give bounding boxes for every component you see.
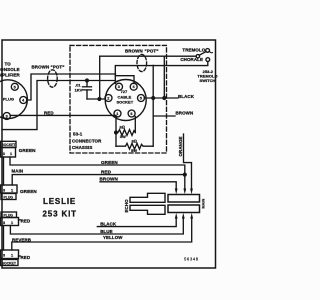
junction node (98, 98, 101, 101)
wire W1 to switch pivot (100, 55, 197, 57)
wire W2 pin3 to chorale contact (115, 62, 208, 84)
svg-text:4: 4 (22, 99, 25, 103)
connector J5 bottom socket (1, 250, 19, 259)
wire red stub J4 (19, 219, 21, 221)
svg-text:SOCKET: SOCKET (2, 261, 17, 265)
label TO CONSOLE AMPLIFIER (0, 61, 21, 77)
P1 pin 3 (3, 113, 10, 120)
P1 pin 4 (20, 97, 27, 104)
left socket S2 box (1, 141, 17, 147)
svg-text:RED: RED (21, 255, 31, 260)
727 cable socket U1 (105, 80, 146, 121)
svg-text:ECHO: ECHO (124, 199, 129, 213)
svg-text:1: 1 (11, 254, 13, 258)
svg-text:GREEN: GREEN (101, 160, 118, 165)
connector plug P1 (to console amplifier) (0, 80, 27, 119)
vertical rail A (152, 65, 154, 146)
echo connector blade lower (130, 205, 165, 214)
svg-text:“POT”: “POT” (51, 65, 65, 70)
svg-text:3: 3 (3, 152, 5, 156)
resistor R2 8ohm 5W (116, 143, 153, 149)
svg-text:RED: RED (44, 110, 54, 115)
svg-text:MAIN: MAIN (201, 199, 205, 209)
svg-text:3W: 3W (120, 134, 126, 139)
labels black blue yellow (100, 221, 123, 240)
svg-text:1: 1 (116, 112, 118, 116)
U1 pin 6 (128, 110, 135, 117)
svg-text:1: 1 (11, 188, 13, 192)
wire reverb pin3 down (3, 226, 5, 251)
wire BLACK bottom (97, 218, 176, 227)
svg-text:PLUG: PLUG (3, 97, 14, 102)
svg-text:1: 1 (10, 152, 12, 156)
svg-text:2: 2 (107, 97, 109, 101)
svg-text:SOCKET: SOCKET (117, 100, 134, 105)
title LESLIE 253 KIT (43, 197, 77, 218)
wire ORANGE (184, 134, 192, 189)
svg-text:BROWN: BROWN (125, 48, 143, 53)
tremolo switch S1 (196, 55, 199, 58)
grommet ellipse left pot (48, 70, 58, 87)
svg-text:5: 5 (140, 97, 142, 101)
echo connector blade upper (130, 193, 165, 202)
svg-text:3: 3 (118, 85, 120, 89)
U1 pin 1 (114, 110, 121, 117)
svg-text:AMPLIFIER: AMPLIFIER (0, 73, 21, 78)
svg-text:PLUG: PLUG (4, 195, 14, 199)
connector J3 (1, 185, 18, 193)
U1 pin 4 (130, 83, 137, 90)
capacitor C1 .01 1KV (86, 79, 89, 82)
svg-text:56348: 56348 (184, 257, 199, 262)
wire RED pin3 to resistor node (10, 114, 116, 116)
wire RED main (12, 175, 185, 185)
svg-text:LESLIE: LESLIE (43, 197, 76, 206)
labels green red brown (100, 160, 119, 181)
svg-text:1KV: 1KV (75, 88, 83, 93)
U1 pin 3 (116, 83, 123, 90)
wire cap bottom to pin2 (87, 98, 105, 100)
svg-text:MAIN: MAIN (12, 168, 24, 173)
svg-text:BLUE: BLUE (100, 229, 112, 234)
connector J2 (1, 148, 16, 157)
wire pin5 black rail (144, 97, 178, 99)
U1 pin 5 (138, 95, 145, 102)
plug box J3 (1, 194, 16, 200)
wire GREEN main (10, 157, 185, 189)
P1 pin 5 (11, 83, 18, 90)
svg-text:4: 4 (133, 85, 136, 89)
svg-text:SOCKET: SOCKET (2, 143, 17, 147)
reverb plug box J4 (1, 212, 17, 218)
connector J4 (1, 218, 19, 226)
label BROWN "POT" right (125, 48, 159, 53)
svg-text:5W: 5W (131, 148, 137, 153)
wire brown stub (153, 115, 175, 117)
svg-text:BROWN: BROWN (32, 65, 50, 70)
svg-text:3: 3 (6, 115, 8, 119)
svg-text:TO: TO (5, 61, 12, 66)
vertical rail B (163, 56, 165, 98)
svg-text:BROWN: BROWN (100, 177, 119, 182)
svg-text:CHASSIS: CHASSIS (72, 145, 92, 150)
wire YELLOW reverb (12, 218, 192, 250)
wire pin4 to W1 top rail (27, 74, 116, 100)
svg-text:BROWN: BROWN (176, 111, 194, 116)
svg-text:SWITCH: SWITCH (200, 78, 216, 83)
svg-text:“POT”: “POT” (145, 48, 159, 53)
svg-text:253 KIT: 253 KIT (43, 210, 77, 219)
svg-text:CABLE: CABLE (118, 94, 132, 99)
53-1 connector chassis dashed box (70, 45, 167, 153)
svg-text:ORANGE: ORANGE (178, 136, 183, 156)
grommet ellipse right pot (137, 54, 147, 71)
svg-text:CONNECTOR: CONNECTOR (72, 138, 102, 143)
arrows into main connector bottom (175, 213, 178, 219)
svg-text:3: 3 (3, 221, 5, 225)
wire BLUE reverb (10, 218, 183, 234)
wire BROWN main (100, 182, 176, 189)
svg-text:CONSOLE: CONSOLE (0, 67, 20, 72)
svg-text:GREEN: GREEN (19, 148, 36, 153)
svg-text:BLACK: BLACK (178, 94, 195, 99)
socket box J5 (1, 260, 19, 266)
svg-text:5: 5 (14, 85, 16, 89)
svg-text:8Ω: 8Ω (132, 138, 137, 143)
svg-text:BLACK: BLACK (100, 221, 117, 226)
svg-text:GREEN: GREEN (20, 189, 37, 194)
svg-text:RED: RED (21, 218, 31, 223)
svg-text:8Ω: 8Ω (120, 125, 125, 130)
svg-text:3: 3 (3, 254, 5, 258)
wire brown pot rail 2 from plug area (2, 81, 115, 130)
label BROWN "POT" left (32, 65, 65, 70)
svg-text:6: 6 (130, 112, 132, 116)
resistor R1 8ohm 3W (116, 117, 118, 146)
svg-text:RED: RED (101, 169, 112, 174)
vertical junction V1 (99, 56, 101, 99)
wire W3 pin4 to chorale contact (115, 76, 134, 84)
svg-text:1: 1 (11, 221, 13, 225)
outer border frame (2, 40, 216, 268)
wire red stub J5 (19, 255, 21, 257)
svg-text:YELLOW: YELLOW (103, 235, 123, 240)
wire pin3 down to J3 (3, 157, 5, 185)
main motor connector block bottom (168, 205, 200, 213)
svg-text:53-1: 53-1 (73, 132, 83, 137)
svg-text:CHORALE: CHORALE (180, 57, 203, 62)
U1 pin 2 (105, 95, 112, 102)
main motor connector block top (168, 195, 200, 203)
svg-text:3: 3 (3, 188, 5, 192)
svg-text:TREMOLO: TREMOLO (182, 47, 205, 52)
arrows into main connector top (175, 189, 178, 195)
